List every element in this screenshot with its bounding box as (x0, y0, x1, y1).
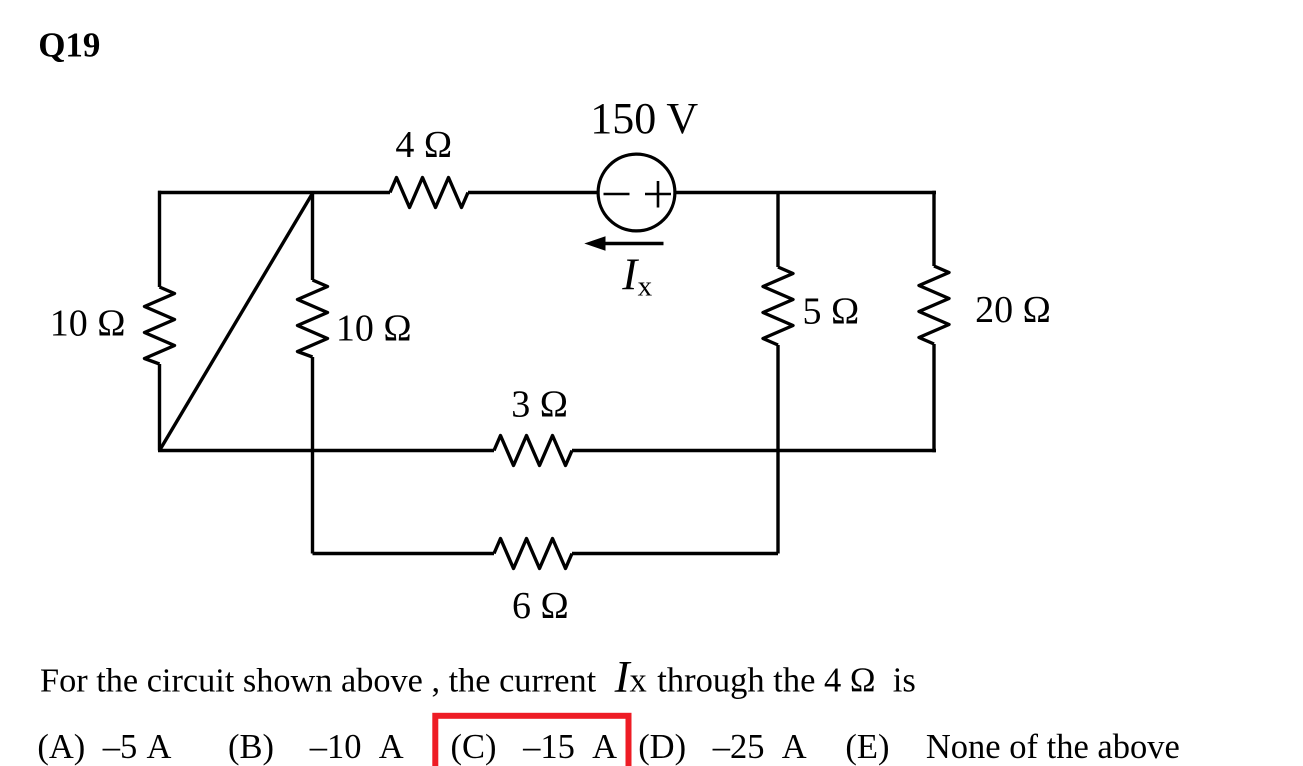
svg-text:3 Ω: 3 Ω (511, 384, 568, 426)
svg-text:Q19: Q19 (38, 26, 100, 65)
svg-text:4 Ω: 4 Ω (395, 124, 452, 166)
wire second vertical branch (x=312.5) (311, 193, 314, 554)
voltage source minus terminal (604, 193, 630, 196)
svg-text:5 Ω: 5 Ω (803, 290, 860, 332)
voltage source plus terminal (645, 181, 671, 208)
svg-text:(E): (E) (845, 728, 889, 766)
svg-text:–5 A: –5 A (102, 728, 172, 766)
svg-text:(B): (B) (228, 728, 274, 766)
wire middle rail (y=450.5) (158, 449, 936, 452)
resistor 3 ohm (middle rail) (494, 436, 572, 466)
resistor 6 ohm (bottom rail) (494, 539, 572, 569)
voltage source V1 150V circle (598, 154, 675, 231)
svg-text:(A): (A) (37, 728, 85, 766)
resistor 10 ohm left (x=159.5) (145, 287, 175, 364)
wire diagonal short-circuit from bottom-left node to top junction (160, 193, 314, 451)
svg-text:I: I (621, 249, 639, 299)
wire 5-ohm branch vertical (x=778) (776, 193, 779, 554)
svg-text:None of the above: None of the above (926, 728, 1180, 766)
resistor 20 ohm (x=934) (919, 266, 949, 344)
wire 20-ohm branch vertical (x=934) (932, 191, 935, 452)
svg-text:x: x (638, 271, 653, 303)
wire top rail (y=192.5) (158, 191, 936, 194)
svg-text:(C): (C) (451, 728, 497, 766)
wire bottom rail (y=553.5) (313, 552, 779, 555)
resistor 4 ohm (top rail) (390, 178, 468, 208)
svg-text:20 Ω: 20 Ω (975, 289, 1051, 331)
svg-text:For the circuit shown above ,: For the circuit shown above , the curren… (40, 662, 597, 700)
svg-text:6 Ω: 6 Ω (512, 585, 569, 627)
svg-text:–15 A: –15 A (522, 728, 617, 766)
resistor 10 ohm second (x=312.5) (298, 280, 328, 357)
svg-text:150 V: 150 V (590, 94, 698, 143)
svg-text:10 Ω: 10 Ω (336, 307, 412, 349)
svg-text:(D): (D) (638, 728, 686, 766)
wire left vertical branch (x=159.5) (158, 191, 161, 451)
svg-text:through the 4 Ω is: through the 4 Ω is (657, 662, 916, 700)
svg-text:x: x (630, 662, 647, 700)
red highlight box around option C (435, 716, 628, 766)
svg-text:10 Ω: 10 Ω (50, 303, 126, 345)
svg-text:–25 A: –25 A (712, 728, 807, 766)
svg-text:–10 A: –10 A (309, 728, 404, 766)
current arrow Ix (pointing left) (604, 242, 664, 246)
resistor 5 ohm (x=778) (763, 267, 793, 345)
